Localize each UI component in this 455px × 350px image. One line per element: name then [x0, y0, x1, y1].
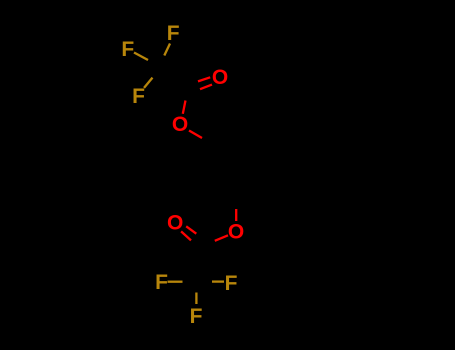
- svg-text:F: F: [121, 38, 134, 61]
- bond C-F half (upper CF3, to left F): [134, 53, 148, 61]
- bond C-F half (lower CF3, to left F): [168, 281, 183, 283]
- svg-text:O: O: [212, 66, 228, 89]
- bond C=O double line 1 (upper ester): [198, 77, 210, 81]
- svg-text:O: O: [228, 221, 244, 244]
- bond C-O ester half (lower ester): [215, 235, 228, 241]
- svg-text:F: F: [132, 85, 145, 108]
- bond C-F half (upper CF3, to bottom F): [144, 78, 153, 88]
- svg-text:F: F: [167, 22, 180, 45]
- bond C=O double line 2 (upper ester): [200, 85, 212, 90]
- bond C=O double line 2 (lower ester): [186, 226, 196, 233]
- bond O-CH2 half (upper ester): [189, 131, 202, 139]
- bond C-O ester half (upper ester): [183, 101, 186, 114]
- bond C=O double line 1 (lower ester): [181, 231, 191, 240]
- bond C-F half (lower CF3, to bottom F): [195, 293, 197, 305]
- svg-text:O: O: [167, 212, 183, 235]
- svg-text:F: F: [225, 272, 238, 295]
- svg-text:O: O: [172, 113, 188, 136]
- bond C-F half (upper CF3, to top F): [164, 44, 170, 56]
- svg-text:F: F: [155, 271, 168, 294]
- bond C-F half (lower CF3, to right F): [212, 280, 224, 282]
- svg-text:F: F: [190, 305, 203, 328]
- bond O-ringC half (lower ester): [235, 209, 237, 221]
